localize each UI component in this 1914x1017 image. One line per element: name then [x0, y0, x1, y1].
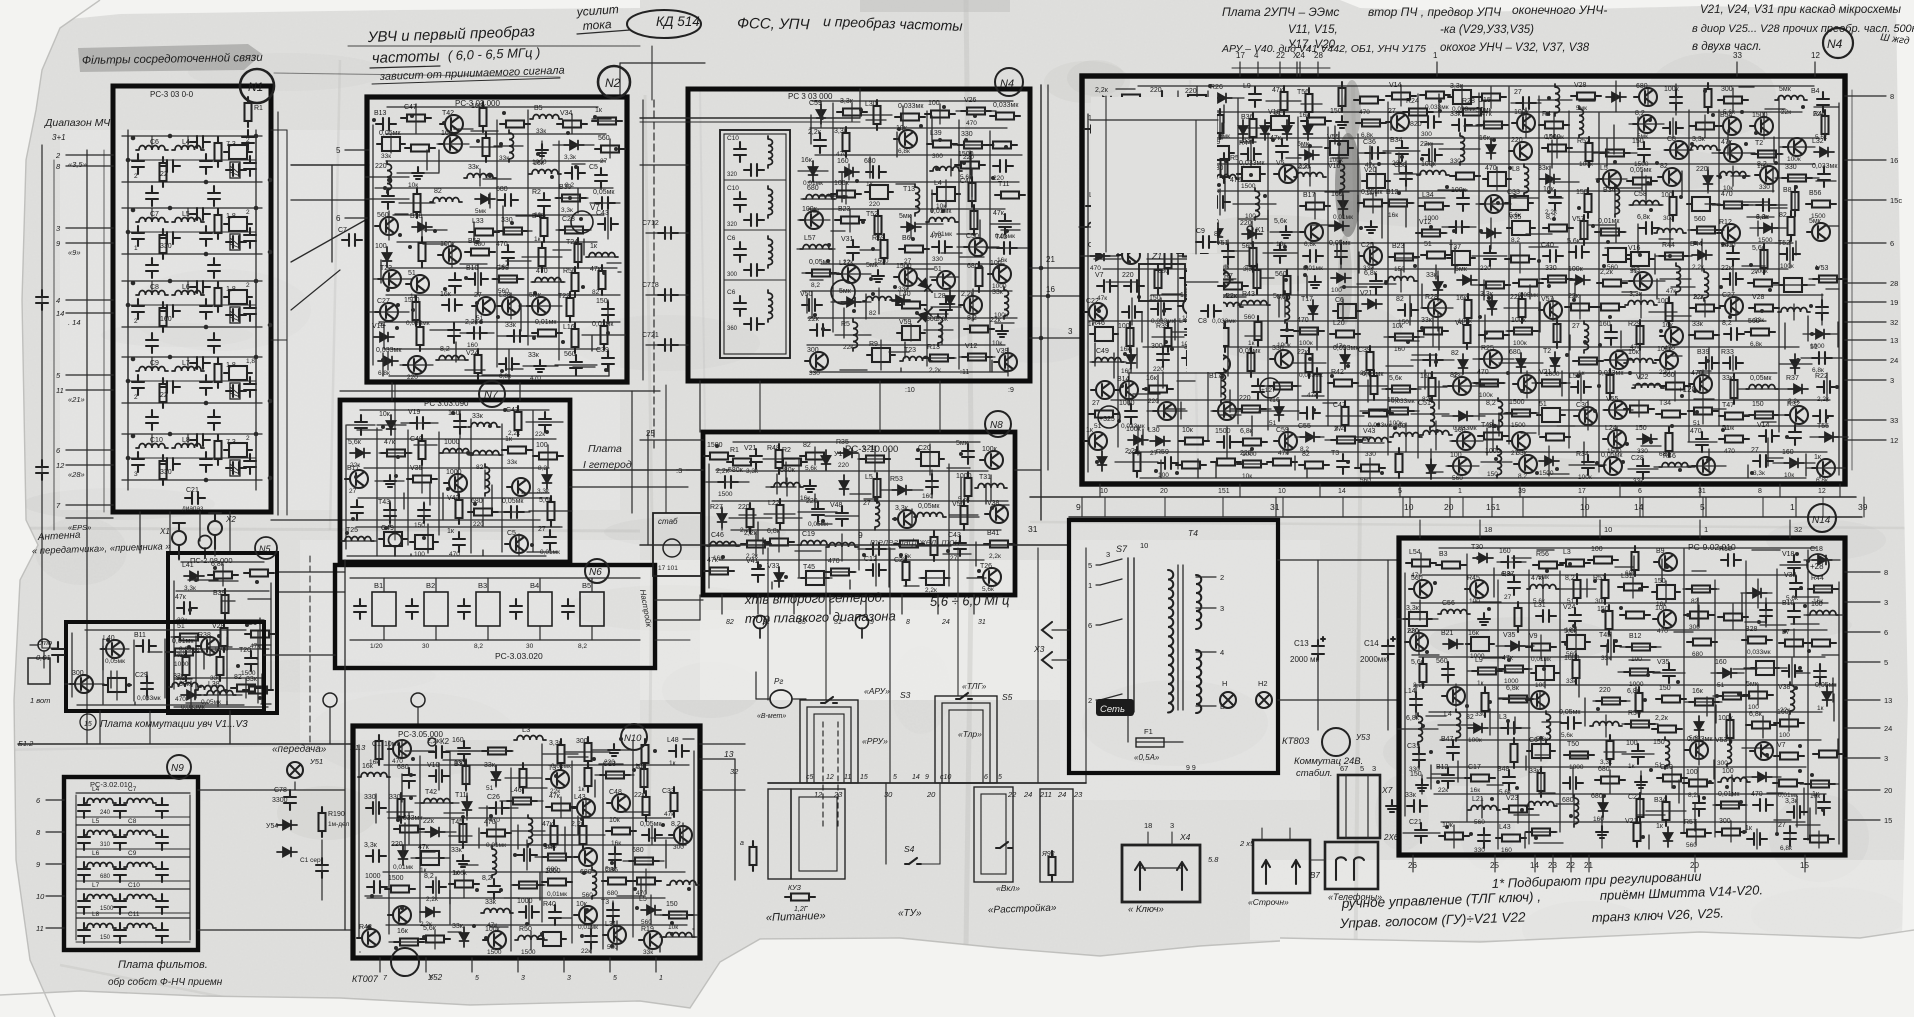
wire — [226, 637, 228, 704]
wire — [1409, 296, 1411, 325]
svg-text:L3: L3 — [1563, 549, 1571, 556]
svg-text:1500: 1500 — [1758, 237, 1773, 244]
svg-text:1500: 1500 — [487, 949, 502, 956]
resistor — [1659, 253, 1689, 260]
capacitor — [1569, 246, 1589, 258]
part label КД514 oval — [627, 10, 701, 38]
svg-text:6,8к: 6,8к — [1749, 711, 1763, 718]
svg-text:C18: C18 — [1810, 546, 1823, 553]
transistor — [663, 539, 681, 557]
capacitor — [847, 240, 859, 260]
input stub — [66, 299, 113, 301]
svg-text:R46: R46 — [1092, 320, 1105, 327]
wire — [1438, 189, 1467, 191]
inductor — [84, 924, 116, 929]
svg-text:2,2к: 2,2к — [1655, 715, 1669, 722]
svg-text:C9: C9 — [128, 850, 137, 857]
resistor — [1180, 171, 1210, 178]
resistor — [463, 760, 470, 790]
transistor — [70, 675, 93, 693]
ground — [457, 855, 469, 867]
resistor — [1788, 211, 1795, 241]
diode — [841, 298, 861, 307]
svg-text:V38: V38 — [1784, 572, 1797, 579]
svg-text:C10: C10 — [727, 185, 739, 192]
svg-text:16к: 16к — [1456, 295, 1468, 302]
resistor — [585, 737, 592, 767]
resistor — [1472, 668, 1502, 675]
svg-text:560: 560 — [582, 892, 593, 899]
svg-text:B41: B41 — [987, 530, 1000, 537]
svg-text:L5: L5 — [92, 818, 100, 825]
svg-text:R46: R46 — [1663, 453, 1676, 460]
svg-text:33к: 33к — [452, 923, 464, 930]
svg-text:8,2: 8,2 — [482, 875, 492, 882]
svg-text:0,033мк: 0,033мк — [1747, 649, 1771, 656]
svg-text:3,3к: 3,3к — [537, 488, 549, 495]
svg-text:С1 сер: С1 сер — [300, 857, 321, 864]
wire — [128, 159, 256, 161]
wire — [911, 509, 913, 526]
svg-text:22: 22 — [160, 392, 168, 399]
wire — [1713, 760, 1715, 779]
svg-text:470: 470 — [1724, 448, 1735, 455]
svg-text:1500: 1500 — [1752, 112, 1768, 119]
svg-text:C26: C26 — [487, 794, 500, 801]
wire — [1165, 408, 1185, 410]
diode — [1097, 97, 1117, 106]
svg-text:39: 39 — [1858, 502, 1868, 512]
filter element — [1537, 408, 1565, 422]
filter element — [1183, 95, 1211, 109]
svg-text:В7: В7 — [1310, 871, 1320, 880]
capacitor — [1663, 663, 1675, 683]
svg-text:100: 100 — [1626, 740, 1638, 747]
wire — [203, 651, 205, 669]
resistor — [955, 162, 985, 169]
resistor — [631, 878, 661, 885]
wire — [1425, 143, 1443, 145]
resistor — [1342, 401, 1349, 431]
resistor — [556, 195, 586, 202]
capacitor — [1782, 665, 1802, 677]
resistor — [1624, 406, 1654, 413]
wire — [776, 474, 778, 494]
svg-text:6,8к: 6,8к — [898, 148, 910, 155]
inductor — [771, 483, 803, 488]
resistor — [559, 227, 589, 234]
wire — [941, 252, 962, 254]
pin stub — [1845, 321, 1886, 323]
wire — [1742, 747, 1771, 749]
inductor — [172, 218, 204, 223]
wire — [806, 295, 808, 313]
svg-text:470: 470 — [1297, 317, 1309, 324]
svg-text:22к: 22к — [808, 316, 820, 323]
wire — [379, 321, 620, 323]
pin stub — [1845, 379, 1886, 381]
svg-text:33к: 33к — [499, 155, 509, 162]
capacitor — [1788, 555, 1800, 575]
transistor — [1274, 432, 1297, 450]
wire — [1762, 716, 1764, 738]
wire — [1538, 96, 1540, 435]
wire — [151, 208, 153, 218]
ground contact — [199, 536, 212, 559]
wire — [151, 434, 153, 444]
svg-text:100: 100 — [990, 260, 1002, 267]
svg-text:100к: 100к — [471, 103, 487, 110]
wire — [1822, 654, 1839, 656]
diode — [1457, 276, 1477, 285]
svg-text:5,6к: 5,6к — [423, 925, 437, 932]
svg-text:560: 560 — [1275, 271, 1287, 278]
svg-text:560: 560 — [1411, 575, 1423, 582]
контакт K2 — [428, 738, 436, 746]
transistor — [1148, 146, 1171, 164]
resistor — [1268, 383, 1298, 390]
svg-text:10к: 10к — [576, 901, 588, 908]
power supply block — [1069, 520, 1278, 773]
resistor — [1420, 658, 1427, 688]
svg-text:«ТУ»: «ТУ» — [898, 908, 922, 919]
wire — [1739, 201, 1769, 203]
module designator N1 — [240, 69, 274, 103]
svg-text:10: 10 — [36, 892, 45, 901]
svg-text:8,2: 8,2 — [1518, 473, 1527, 480]
wire — [1613, 125, 1615, 154]
svg-text:C8: C8 — [1667, 136, 1676, 143]
resistor — [1571, 93, 1601, 100]
resistor — [969, 177, 976, 207]
transistor — [978, 568, 1001, 586]
resistor — [1328, 380, 1358, 387]
pin stub — [1845, 439, 1886, 441]
wire — [1015, 469, 1041, 471]
resistor — [1573, 358, 1603, 365]
svg-text:2,2к: 2,2к — [1095, 87, 1109, 94]
diode — [901, 223, 921, 232]
inductor — [1294, 173, 1326, 178]
svg-text:150: 150 — [1410, 771, 1422, 778]
svg-text:2: 2 — [134, 173, 138, 180]
pin stub — [471, 958, 473, 972]
svg-text:T34: T34 — [1659, 400, 1671, 407]
wire — [1547, 473, 1569, 475]
connector X4 Ключ — [1122, 845, 1200, 902]
svg-text:33к: 33к — [1692, 321, 1704, 328]
wire — [699, 381, 701, 432]
svg-text:V11, V15,: V11, V15, — [1288, 24, 1338, 36]
svg-text:R48: R48 — [767, 445, 780, 452]
svg-text:B12: B12 — [1386, 189, 1399, 196]
svg-text:100к: 100к — [1780, 263, 1794, 270]
filter element — [1507, 221, 1535, 235]
svg-text:1к: 1к — [578, 786, 585, 793]
svg-text:B21: B21 — [1441, 630, 1454, 637]
svg-text:5мк: 5мк — [1746, 681, 1759, 688]
resistor — [1715, 802, 1745, 809]
svg-text:0,033мк: 0,033мк — [137, 695, 161, 702]
capacitor C14 2000мк — [1382, 637, 1395, 660]
svg-text:1500: 1500 — [1545, 134, 1561, 141]
svg-text:R44: R44 — [1662, 242, 1675, 249]
wire — [957, 233, 976, 235]
svg-text:10к: 10к — [1182, 427, 1194, 434]
wire — [568, 756, 588, 758]
svg-text:R39: R39 — [1156, 323, 1169, 330]
svg-text:B48: B48 — [1497, 766, 1510, 773]
svg-text:47к: 47к — [1272, 87, 1284, 94]
diode — [1517, 353, 1526, 373]
svg-text:B3: B3 — [1439, 551, 1448, 558]
svg-text:V38: V38 — [987, 500, 1000, 507]
svg-text:18: 18 — [1144, 821, 1152, 830]
wire — [1278, 559, 1399, 561]
transistor — [1442, 687, 1465, 705]
capacitor — [489, 802, 509, 814]
wire — [1612, 187, 1641, 189]
wire — [1422, 574, 1796, 576]
svg-text:L30: L30 — [1148, 427, 1160, 434]
inductor — [1676, 263, 1681, 295]
diode — [1481, 229, 1501, 238]
svg-text:51: 51 — [177, 623, 185, 630]
svg-text:L31: L31 — [1534, 602, 1546, 609]
wire — [1654, 254, 1656, 274]
svg-text:220: 220 — [1122, 272, 1134, 279]
wire — [1826, 288, 1839, 290]
svg-text:47к: 47к — [542, 821, 554, 828]
svg-text:T30: T30 — [1471, 544, 1483, 551]
svg-text:Плата: Плата — [588, 443, 622, 455]
svg-text:470: 470 — [1657, 628, 1668, 635]
svg-text:82: 82 — [1396, 296, 1404, 303]
wire — [1582, 497, 1584, 517]
svg-text:33: 33 — [1890, 416, 1898, 425]
resistor — [244, 570, 274, 577]
wire — [209, 580, 238, 582]
svg-text:R57: R57 — [1684, 819, 1697, 826]
inductor — [1438, 610, 1470, 615]
svg-text:C21: C21 — [186, 487, 199, 494]
svg-text:82: 82 — [1779, 212, 1787, 219]
svg-text:T42: T42 — [425, 789, 437, 796]
capacitor — [570, 355, 582, 375]
wire — [950, 159, 952, 176]
svg-text:3: 3 — [521, 975, 525, 982]
diode — [839, 168, 859, 177]
resistor — [1565, 304, 1595, 311]
svg-text:У54: У54 — [266, 823, 278, 830]
svg-text:160: 160 — [467, 342, 478, 349]
wire — [1429, 711, 1822, 713]
inductor — [863, 297, 895, 302]
microphone Рг — [770, 690, 792, 708]
wire — [1438, 381, 1440, 409]
svg-text:R44: R44 — [1811, 575, 1824, 582]
svg-text:82: 82 — [1466, 714, 1474, 721]
resistor — [1436, 562, 1466, 569]
pin stub — [1845, 95, 1886, 97]
resistor — [546, 804, 576, 811]
resistor — [1526, 644, 1556, 651]
svg-text:560: 560 — [377, 212, 389, 219]
svg-text:6,8к: 6,8к — [1240, 428, 1254, 435]
svg-text:22к: 22к — [1781, 109, 1791, 116]
wire — [1106, 242, 1784, 244]
bus — [1069, 516, 1862, 518]
capacitor — [1125, 404, 1137, 424]
resistor — [899, 246, 929, 253]
wire — [1151, 130, 1153, 153]
wire — [655, 639, 690, 641]
svg-text:B11: B11 — [134, 632, 146, 639]
resistor — [376, 735, 383, 765]
resistor R24 820 — [1403, 109, 1433, 116]
resistor — [217, 651, 224, 681]
svg-text:B39: B39 — [213, 590, 226, 597]
svg-text:5мк: 5мк — [899, 213, 912, 220]
wire — [1323, 402, 1337, 404]
svg-text:8,2: 8,2 — [1722, 320, 1732, 327]
svg-text:10к: 10к — [1242, 473, 1252, 480]
capacitor — [1693, 796, 1705, 816]
capacitor — [507, 330, 527, 342]
transistor — [1689, 375, 1712, 393]
wire — [1776, 569, 1778, 835]
wire — [1267, 133, 1269, 430]
svg-text:B10: B10 — [1782, 600, 1795, 607]
wire — [1404, 573, 1406, 816]
resistor — [1637, 793, 1644, 823]
capacitor — [1632, 744, 1644, 764]
wire — [523, 787, 547, 789]
wire — [1175, 240, 1199, 242]
svg-text:470: 470 — [1359, 109, 1370, 116]
transistor — [1386, 113, 1409, 131]
transistor — [507, 478, 530, 496]
wire — [979, 220, 981, 243]
svg-text:470: 470 — [1721, 191, 1733, 198]
wire — [358, 497, 550, 499]
capacitor — [78, 862, 90, 882]
wire — [573, 469, 703, 471]
svg-text:V35: V35 — [1503, 632, 1516, 639]
svg-text:хтв второго гетерод.: хтв второго гетерод. — [744, 590, 886, 607]
svg-text:16к: 16к — [1692, 688, 1704, 695]
input stub — [66, 374, 113, 376]
wire — [1195, 120, 1197, 254]
resistor — [1761, 244, 1768, 274]
svg-text:0,033мк: 0,033мк — [406, 320, 430, 327]
svg-text:330: 330 — [1475, 711, 1486, 718]
wire — [553, 917, 571, 919]
wire — [176, 619, 264, 621]
diode — [1128, 436, 1148, 445]
svg-text:R34: R34 — [1576, 451, 1589, 458]
wire — [970, 152, 972, 175]
wire — [583, 239, 585, 255]
diode — [1540, 175, 1560, 184]
switch Вкл — [996, 842, 1012, 848]
wire — [947, 467, 970, 469]
svg-text:22к: 22к — [1693, 294, 1705, 301]
diode — [1752, 773, 1772, 782]
svg-text:680: 680 — [967, 263, 979, 270]
svg-text:100к: 100к — [802, 206, 818, 213]
wire — [1729, 141, 1731, 158]
resistor — [1595, 777, 1625, 784]
svg-text:C49: C49 — [1096, 348, 1109, 355]
switch contact — [1100, 694, 1122, 700]
inductor — [436, 356, 468, 361]
svg-text:20: 20 — [1160, 488, 1168, 495]
resistor — [482, 748, 512, 755]
wire — [1138, 85, 1814, 87]
svg-text:560: 560 — [1686, 842, 1697, 849]
capacitor — [351, 500, 363, 520]
wire — [1301, 146, 1322, 148]
capacitor — [1818, 167, 1830, 187]
svg-text:L8: L8 — [1512, 166, 1520, 173]
wire — [1524, 833, 1526, 848]
diode — [1212, 94, 1232, 103]
wire loop — [791, 789, 845, 879]
wire — [1712, 408, 1726, 410]
wire — [1336, 243, 1338, 257]
svg-text:10: 10 — [1100, 488, 1108, 495]
resistor — [1716, 829, 1746, 836]
resistor — [741, 541, 771, 548]
wire — [1141, 313, 1143, 342]
diode — [1434, 276, 1443, 296]
svg-text:51: 51 — [934, 266, 942, 273]
svg-text:1к: 1к — [452, 870, 460, 877]
wire — [1176, 171, 1189, 173]
svg-text:6: 6 — [984, 774, 988, 781]
wire — [71, 633, 73, 697]
wire — [482, 550, 484, 556]
filter element — [1266, 116, 1294, 130]
wire — [1537, 549, 1554, 551]
inductor — [915, 184, 920, 216]
wire — [128, 304, 256, 306]
transistor — [1409, 580, 1432, 598]
svg-text:470: 470 — [828, 558, 840, 565]
resistor — [174, 634, 204, 641]
svg-text:220: 220 — [1239, 395, 1251, 402]
wire — [1312, 224, 1335, 226]
wire — [1134, 225, 1154, 227]
wire — [1642, 497, 1644, 517]
svg-text:150: 150 — [1576, 189, 1588, 196]
svg-text:5,6к: 5,6к — [1411, 659, 1425, 666]
wire — [869, 157, 871, 178]
filter element — [921, 571, 949, 585]
capacitor — [208, 410, 220, 430]
svg-text:Х4: Х4 — [1179, 832, 1191, 842]
svg-text:V5: V5 — [1276, 160, 1285, 167]
filter element — [801, 571, 829, 585]
capacitor — [734, 296, 746, 316]
resistor — [643, 791, 650, 821]
wire — [460, 263, 487, 265]
resistor — [1543, 225, 1573, 232]
resistor — [747, 503, 754, 533]
inductor — [800, 245, 832, 250]
wire — [473, 222, 475, 241]
